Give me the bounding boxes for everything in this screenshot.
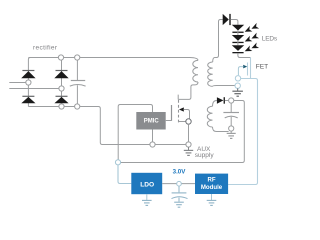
- svg-text:RF: RF: [207, 176, 215, 183]
- ground FET: [232, 88, 243, 96]
- op-amp U3 RF Module block: [195, 174, 228, 194]
- transformer T1 primary winding: [193, 60, 198, 82]
- wire aux winding top to diode D9: [213, 101, 217, 107]
- wire secondary top to LED feed: [213, 20, 223, 63]
- node circle aux diode out: [229, 98, 234, 103]
- wire PMIC gate drive: [166, 120, 172, 122]
- diode D1 bridge upper-left: [21, 70, 35, 78]
- node circle PMIC ground: [150, 142, 155, 147]
- wire bridge left column: [28, 58, 30, 107]
- op-amp U2 LDO block: [131, 173, 162, 194]
- diode D4 bridge lower-right: [54, 96, 68, 104]
- node circle Q1 source: [186, 119, 191, 124]
- diode D9 aux rectifier: [217, 97, 229, 104]
- wire aux winding bottom: [213, 127, 229, 132]
- wire RF ground pin: [211, 194, 213, 200]
- node circle Q2 gate: [235, 76, 240, 81]
- node circle Q2 source gnd: [235, 83, 240, 88]
- wire AC input line 1: [9, 82, 28, 84]
- wire bridge right column: [61, 58, 63, 107]
- node circle top rail bridge: [58, 55, 63, 60]
- wire LDO ground pin: [146, 194, 148, 200]
- node circle main ground: [186, 142, 191, 147]
- ground main: [184, 147, 193, 155]
- svg-text:FET: FET: [256, 64, 268, 71]
- wire primary bottom to Q1 drain: [178, 82, 198, 99]
- diode D5 series: [223, 14, 238, 25]
- svg-text:LEDs: LEDs: [262, 36, 278, 43]
- transistor Q2 output FET: [238, 58, 250, 79]
- wire AUX rail to LDO: [120, 101, 244, 163]
- node circle aux bottom: [229, 126, 234, 131]
- wire Q1 source to ground node: [188, 124, 190, 142]
- ground LDO: [142, 200, 152, 205]
- capacitor C2 aux: [223, 103, 239, 126]
- node circle 3.0V: [177, 181, 182, 186]
- svg-text:rectifier: rectifier: [33, 45, 58, 52]
- svg-text:PMIC: PMIC: [144, 119, 160, 125]
- LED D6: [232, 25, 244, 35]
- transformer T1 secondary winding: [208, 62, 213, 86]
- wire PMIC bottom pin: [152, 130, 154, 142]
- node circle AUX tap: [115, 160, 120, 165]
- wire AUX tap to LDO: [118, 165, 131, 184]
- op-amp U1 PMIC block: [136, 112, 165, 130]
- wire AC input line 2: [9, 88, 61, 90]
- node circle AC1-bridge left: [26, 80, 31, 85]
- capacitor C3 output: [172, 186, 188, 202]
- diode D2 bridge lower-left: [21, 96, 35, 104]
- node circle bottom rail cap: [75, 104, 80, 109]
- wire top rail: [28, 58, 198, 61]
- wire Q2 source to RF module: [228, 79, 257, 185]
- node circle bottom rail bridge: [59, 104, 64, 109]
- svg-text:supply: supply: [195, 152, 215, 159]
- ground output cap: [174, 202, 184, 207]
- svg-text:LDO: LDO: [140, 181, 154, 188]
- LED arrow 3: [243, 42, 259, 53]
- ground RF: [207, 200, 217, 205]
- transformer T1 aux winding: [207, 106, 212, 127]
- wire bottom rail: [28, 107, 186, 145]
- capacitor C1 bulk: [70, 58, 86, 107]
- diode D3 bridge upper-right: [54, 70, 68, 78]
- LED D7: [232, 35, 244, 45]
- wire LDO to RF module: [162, 183, 195, 185]
- svg-text:3.0V: 3.0V: [173, 168, 187, 175]
- wire PMIC top to AUX node: [118, 105, 152, 160]
- node circle AC2-bridge right: [59, 86, 64, 91]
- ground aux: [227, 131, 236, 138]
- LED D8: [232, 45, 244, 53]
- LED arrow 2: [243, 33, 259, 44]
- wire secondary bottom to FET source node: [213, 85, 235, 88]
- transistor Q1 main switch: [172, 100, 190, 124]
- svg-text:Module: Module: [201, 184, 223, 191]
- node circle top rail cap: [75, 55, 80, 60]
- LED arrow 1: [243, 23, 259, 34]
- wire LED string to Q2 drain: [238, 53, 251, 57]
